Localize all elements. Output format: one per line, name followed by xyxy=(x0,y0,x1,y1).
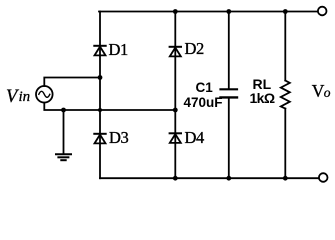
svg-text:in: in xyxy=(19,89,31,105)
terminal output bottom xyxy=(319,173,328,182)
diode D2 xyxy=(170,39,204,58)
label Vin xyxy=(6,87,30,107)
node B junction (source bottom / D2-D4 branch) xyxy=(173,108,178,113)
node junction bottom rail / C1 branch xyxy=(226,176,231,181)
node junction top rail / RL branch xyxy=(283,9,288,14)
AC source Vin xyxy=(36,86,53,103)
wire second branch (D2/D4 vertical) xyxy=(174,12,176,179)
wire bottom rail xyxy=(100,177,319,179)
node junction top rail / C1 branch xyxy=(226,9,231,14)
node crossing blob at D1-D3 branch xyxy=(98,108,102,112)
label Vo xyxy=(312,81,331,101)
node junction bottom rail / D4 branch xyxy=(173,176,178,181)
svg-text:D3: D3 xyxy=(109,128,129,147)
node junction ground tap xyxy=(61,108,66,113)
terminal output top xyxy=(318,7,327,16)
diode D1 xyxy=(94,40,128,59)
capacitor C1 xyxy=(221,12,238,179)
label RL value xyxy=(250,76,275,106)
svg-text:D4: D4 xyxy=(185,128,205,147)
svg-text:D1: D1 xyxy=(109,40,129,59)
svg-text:1kΩ: 1kΩ xyxy=(250,90,275,106)
svg-text:D2: D2 xyxy=(185,39,205,58)
ground xyxy=(56,110,71,160)
svg-text:C1: C1 xyxy=(196,80,214,95)
wire source top to node A xyxy=(44,78,100,87)
svg-text:o: o xyxy=(324,85,331,100)
node junction bottom rail / RL branch xyxy=(283,176,288,181)
wire source bottom to node B xyxy=(44,103,175,110)
diode D3 xyxy=(94,128,128,147)
wire top rail xyxy=(99,11,318,13)
label C1 value xyxy=(184,80,223,110)
svg-text:470uF: 470uF xyxy=(184,95,223,110)
node A junction (source top / D1-D3 branch) xyxy=(98,75,103,80)
wire left branch (D1/D3 vertical) xyxy=(99,12,101,179)
diode D4 xyxy=(170,128,204,147)
node junction top rail / D2 branch xyxy=(173,9,178,14)
resistor RL xyxy=(281,12,290,179)
